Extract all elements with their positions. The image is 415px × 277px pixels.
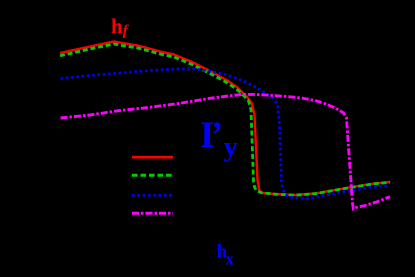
curve red h_f solid xyxy=(60,42,390,196)
legend sample magenta dash-dot xyxy=(132,212,173,215)
legend sample red solid xyxy=(132,156,173,159)
legend sample green dashed xyxy=(132,174,173,177)
legend sample blue dotted xyxy=(132,194,173,197)
curve magenta dash-dot xyxy=(61,94,391,208)
curve green dashed xyxy=(60,44,390,195)
curve blue dotted xyxy=(61,69,391,199)
